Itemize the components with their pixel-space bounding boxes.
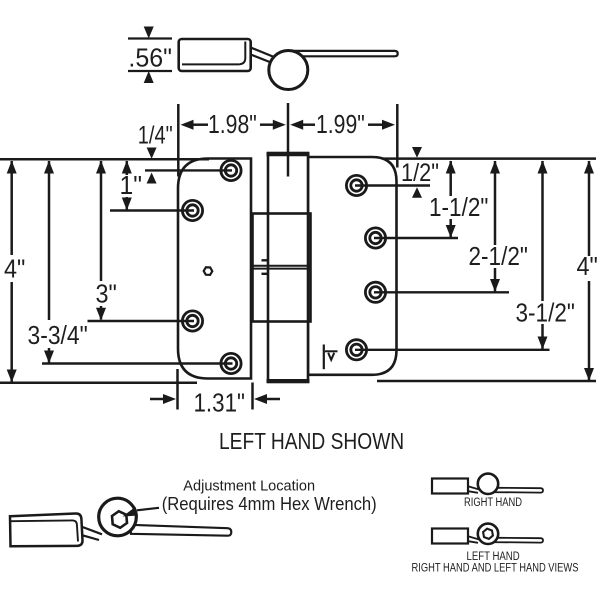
dimension .56 up arrow	[144, 71, 154, 83]
dim 1-1/2 inch	[449, 161, 452, 238]
svg-text:3-1/2": 3-1/2"	[516, 299, 575, 328]
dim 1.99	[290, 120, 303, 130]
right leaf hole C	[365, 282, 385, 302]
barrel	[268, 153, 308, 382]
top view left leaf	[179, 39, 251, 71]
svg-text:2-1/2": 2-1/2"	[469, 243, 528, 272]
dim 1/4 inch	[147, 148, 157, 159]
adjustment mark on right leaf	[323, 345, 325, 370]
sleeve ticks	[262, 259, 268, 261]
sleeve	[253, 214, 311, 322]
svg-text:(Requires 4mm Hex Wrench): (Requires 4mm Hex Wrench)	[162, 493, 377, 514]
left leaf hole 2	[182, 200, 202, 220]
adj view right leaf bar	[130, 525, 231, 536]
barrel bottom cap	[267, 379, 310, 383]
barrel top cap	[267, 152, 310, 156]
right leaf hole B	[365, 228, 385, 248]
svg-text:1/2": 1/2"	[401, 159, 439, 187]
hole leader lines left leaf	[42, 170, 233, 363]
svg-text:4": 4"	[577, 253, 598, 281]
left leaf hole 3	[182, 311, 202, 331]
dimension .56 top line	[128, 37, 172, 39]
left leaf pilot hex	[204, 267, 213, 275]
svg-text:.56": .56"	[128, 44, 172, 73]
svg-text:1/4": 1/4"	[138, 121, 173, 149]
left hand icon hex socket	[483, 529, 493, 539]
left hand icon bar	[488, 538, 543, 543]
right hand icon bar	[488, 488, 543, 493]
dim 4 inch right	[588, 161, 591, 380]
dim 3-3/4 inch	[48, 161, 51, 363]
left hand icon connector	[468, 536, 480, 540]
adj view left leaf	[10, 514, 83, 547]
svg-text:LEFT HAND SHOWN: LEFT HAND SHOWN	[219, 429, 404, 454]
right hand icon connector	[468, 486, 480, 490]
svg-text:3": 3"	[96, 280, 117, 308]
svg-text:Adjustment Location: Adjustment Location	[183, 478, 315, 494]
extension lines	[178, 103, 397, 177]
top view left leaf inner fold line	[182, 42, 245, 65]
adj view hex socket	[112, 511, 127, 528]
left hand icon leaf	[432, 529, 468, 544]
left leaf	[178, 159, 251, 379]
bottom reference line left	[0, 382, 197, 385]
dim 4 inch left	[10, 161, 13, 382]
svg-text:3-3/4": 3-3/4"	[28, 322, 88, 351]
top view right leaf bar	[285, 51, 398, 56]
dim 1 inch	[126, 161, 129, 210]
right hand icon knuckle	[478, 474, 498, 494]
right hand icon leaf	[432, 479, 468, 494]
right leaf hole D	[346, 340, 366, 360]
svg-text:4": 4"	[4, 255, 25, 283]
right leaf hole A	[346, 175, 366, 195]
dim 3 inch	[100, 161, 103, 320]
dim 3-1/2 inch	[541, 161, 544, 349]
adj leader line	[137, 508, 159, 511]
bottom reference line right	[377, 380, 596, 383]
dimension .56 down arrow	[144, 27, 154, 39]
dim 1/2 inch	[412, 147, 422, 158]
dimension .56 bottom line	[128, 70, 172, 72]
adj view knuckle	[99, 498, 137, 536]
svg-text:RIGHT HAND AND LEFT HAND VIEWS: RIGHT HAND AND LEFT HAND VIEWS	[412, 561, 579, 574]
top reference line left	[0, 158, 209, 161]
dim 2-1/2 inch	[494, 161, 497, 292]
top view connector strap	[251, 48, 274, 58]
left leaf hole 4	[221, 353, 241, 373]
left leaf hole 1	[182, 160, 385, 373]
adj view connector strap	[83, 527, 103, 534]
svg-text:1.98": 1.98"	[208, 111, 257, 140]
sleeve mid double line	[253, 265, 311, 267]
svg-text:1.99": 1.99"	[316, 111, 365, 140]
svg-text:1.31": 1.31"	[194, 389, 245, 418]
left hand icon knuckle	[478, 524, 498, 544]
hole leader lines right leaf	[355, 186, 550, 350]
adj view leaf inner fold edge	[11, 520, 78, 541]
right leaf	[308, 157, 397, 375]
svg-text:RIGHT HAND: RIGHT HAND	[464, 496, 522, 509]
adj leader arrowhead	[123, 507, 139, 517]
dim 1.98	[181, 120, 194, 130]
top view knuckle	[269, 51, 308, 90]
top reference line right	[383, 157, 596, 160]
svg-text:1-1/2": 1-1/2"	[429, 194, 488, 223]
svg-text:1": 1"	[120, 171, 142, 200]
